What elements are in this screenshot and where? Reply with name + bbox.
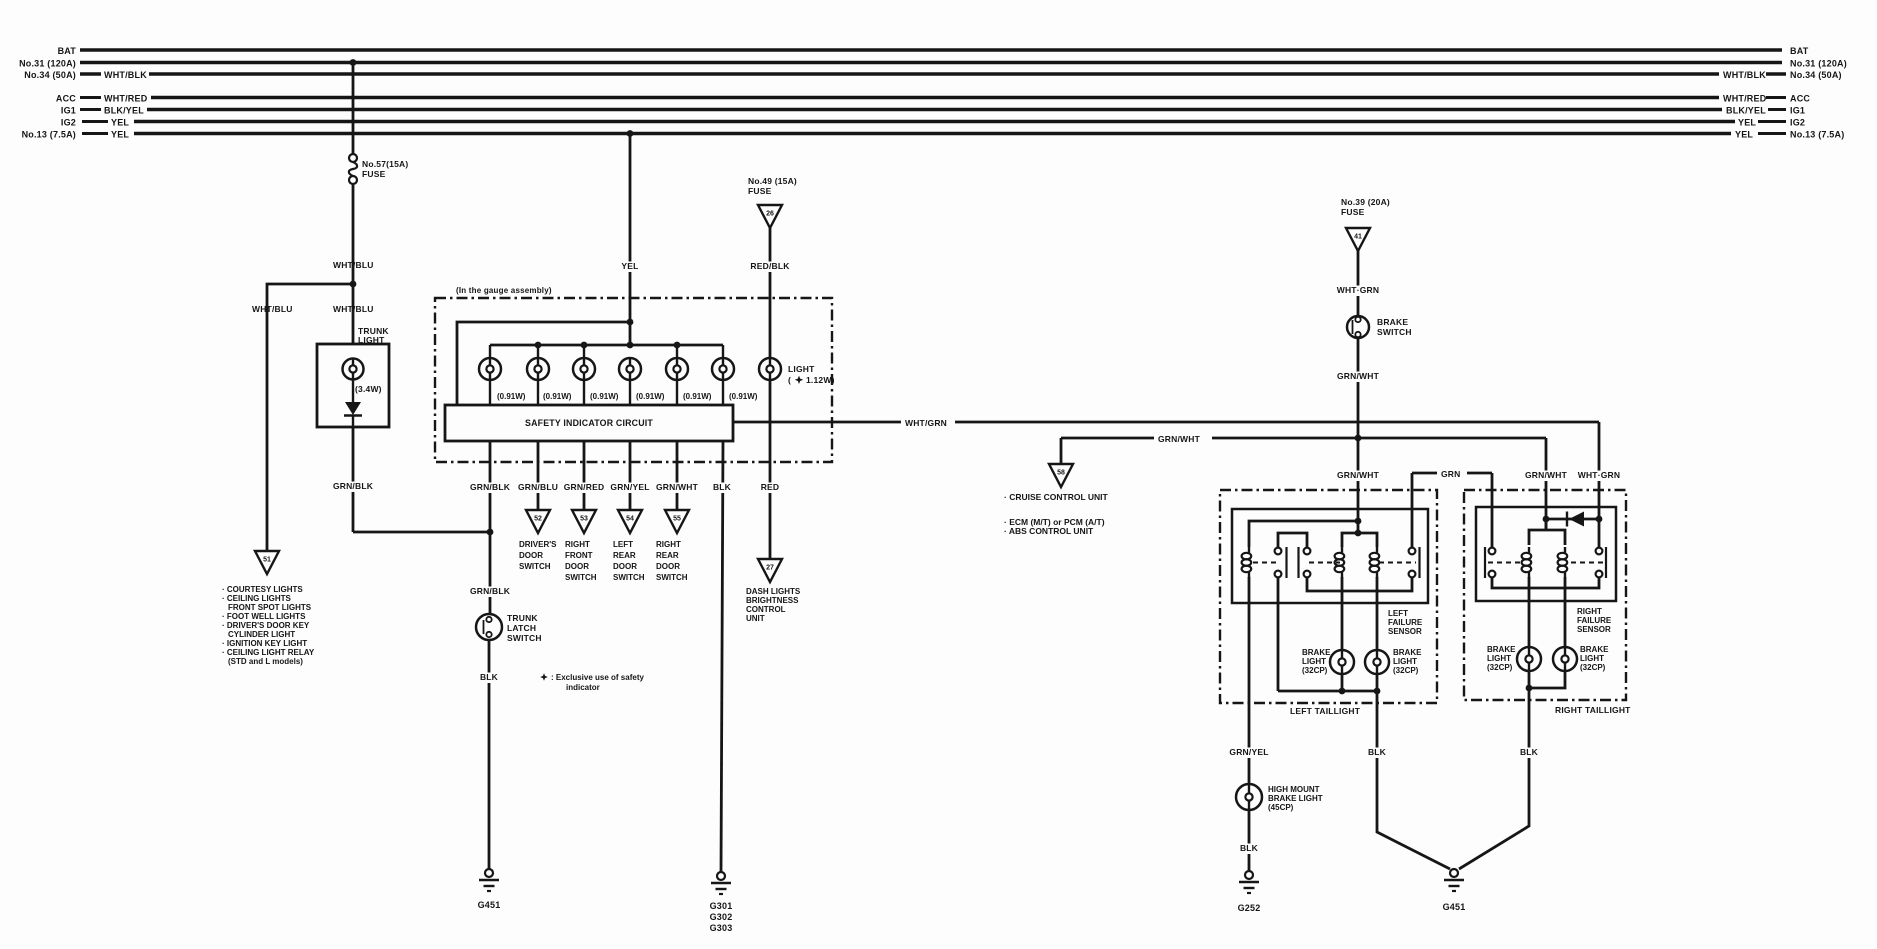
svg-text:LATCH: LATCH (507, 623, 536, 633)
contact pair A (1275, 548, 1282, 555)
svg-text:FAILURE: FAILURE (1577, 616, 1612, 625)
svg-text:BRAKE: BRAKE (1580, 645, 1609, 654)
svg-text:LIGHT: LIGHT (1580, 654, 1604, 663)
svg-text:· IGNITION KEY LIGHT: · IGNITION KEY LIGHT (222, 639, 307, 648)
contact bars (1285, 547, 1287, 578)
svg-text:ACC: ACC (56, 94, 76, 104)
connector 54 left rear door switch (618, 510, 642, 533)
wire GRN between taillights (1412, 472, 1437, 475)
wire GRN/YEL out of box (1248, 577, 1251, 784)
brake switch SW (1347, 316, 1369, 338)
svg-text:WHT/RED: WHT/RED (1723, 94, 1767, 104)
svg-text:SWITCH: SWITCH (519, 562, 551, 571)
lamp indicator 1 (0.91W) (489, 345, 491, 358)
svg-text:(0.91W): (0.91W) (543, 392, 572, 401)
lamp indicator 5 (0.91W) (676, 345, 678, 358)
svg-text:SWITCH: SWITCH (507, 633, 542, 643)
wire BLK (488, 640, 491, 869)
svg-text:FUSE: FUSE (1341, 207, 1365, 217)
contact bar right (1418, 547, 1420, 578)
svg-text:FUSE: FUSE (362, 169, 386, 179)
svg-text:GRN/BLK: GRN/BLK (333, 481, 374, 491)
lamp indicator 6 (0.91W) (722, 345, 724, 358)
svg-text:LIGHT: LIGHT (1302, 657, 1326, 666)
wire GRN/YEL to left rear door switch (629, 441, 632, 510)
svg-text:GRN/WHT: GRN/WHT (656, 482, 699, 492)
svg-text:GRN/WHT: GRN/WHT (1525, 470, 1568, 480)
svg-text:GRN: GRN (1441, 469, 1461, 479)
wires lamps to safety indicator circuit (489, 380, 491, 405)
svg-text:(3.4W): (3.4W) (355, 384, 382, 394)
svg-text:YEL: YEL (111, 130, 129, 140)
wire YEL (629, 134, 632, 346)
svg-text:: Exclusive use of safety: : Exclusive use of safety (551, 673, 644, 682)
svg-text:WHT/BLK: WHT/BLK (1723, 70, 1766, 80)
lamp indicator 3 (0.91W) (583, 345, 585, 358)
svg-text:G303: G303 (710, 923, 733, 933)
svg-text:CYLINDER LIGHT: CYLINDER LIGHT (228, 630, 295, 639)
svg-text:(45CP): (45CP) (1268, 803, 1294, 812)
svg-text:WHT/GRN: WHT/GRN (905, 418, 947, 428)
contact bar left (1484, 547, 1486, 578)
lamp indicator 2 (0.91W) (537, 345, 539, 358)
svg-text:GRN/RED: GRN/RED (564, 482, 605, 492)
node junction (1355, 518, 1362, 525)
svg-text:BLK: BLK (713, 482, 732, 492)
svg-text:FRONT: FRONT (565, 551, 593, 560)
bus No.31 (120A) (80, 61, 1782, 64)
svg-text:BLK: BLK (1520, 747, 1539, 757)
svg-text:DOOR: DOOR (656, 562, 680, 571)
wire (352, 63, 355, 155)
svg-text:WHT/BLU: WHT/BLU (333, 260, 374, 270)
wire WHT/GRN drop to right taillight (1598, 422, 1601, 519)
svg-text:GRN/YEL: GRN/YEL (1229, 747, 1268, 757)
svg-text:BLK/YEL: BLK/YEL (1726, 106, 1766, 116)
svg-text:SWITCH: SWITCH (565, 573, 597, 582)
svg-text:BLK: BLK (1240, 843, 1259, 853)
svg-text:(32CP): (32CP) (1302, 666, 1328, 675)
node junction WHT/BLU branch (350, 281, 357, 288)
svg-text:DOOR: DOOR (519, 551, 543, 560)
node junction GRN/WHT (1355, 435, 1362, 442)
svg-text:RIGHT: RIGHT (656, 540, 681, 549)
svg-text:GRN/BLU: GRN/BLU (518, 482, 558, 492)
wire contact to bottom (1277, 578, 1280, 691)
svg-text:FRONT SPOT LIGHTS: FRONT SPOT LIGHTS (228, 603, 312, 612)
svg-text:GRN/BLK: GRN/BLK (470, 482, 511, 492)
svg-text:(0.91W): (0.91W) (636, 392, 665, 401)
svg-text:· CRUISE CONTROL UNIT: · CRUISE CONTROL UNIT (1004, 492, 1109, 502)
wire WHT/GRN (1357, 251, 1360, 316)
svg-text:BAT: BAT (58, 46, 77, 56)
svg-text:REAR: REAR (613, 551, 636, 560)
svg-text:No.34 (50A): No.34 (50A) (24, 70, 76, 80)
svg-text:(0.91W): (0.91W) (590, 392, 619, 401)
ground G252 (1245, 871, 1253, 879)
contact bridge (1278, 533, 1307, 547)
svg-text:RED/BLK: RED/BLK (750, 261, 790, 271)
wire branch to courtesy lights (267, 284, 353, 551)
connector 58 cruise control unit (1049, 464, 1073, 487)
dashed actuation line (1253, 562, 1276, 564)
svg-text:BAT: BAT (1790, 46, 1809, 56)
right taillight box (1464, 490, 1626, 700)
lamp brake light left inner (32CP) (1365, 650, 1389, 674)
wire coil A to brake light (1341, 577, 1344, 650)
trunk latch switch SW (476, 614, 502, 640)
svg-text:(32CP): (32CP) (1487, 663, 1513, 672)
svg-text:LIGHT: LIGHT (788, 364, 815, 374)
svg-text:TRUNK: TRUNK (507, 613, 538, 623)
note exclusive use of safety indicator (540, 673, 548, 681)
dashed actuation line (1488, 562, 1523, 564)
left failure sensor box (1232, 509, 1428, 603)
bus ACC WHT/RED (80, 96, 101, 99)
wire BLK (1248, 810, 1251, 871)
svg-text:SENSOR: SENSOR (1577, 625, 1611, 634)
wire bottom bus (1278, 690, 1377, 693)
wire hat to sensor coils (1357, 521, 1360, 533)
svg-text:No.13 (7.5A): No.13 (7.5A) (22, 130, 76, 140)
svg-text:RIGHT: RIGHT (1577, 607, 1602, 616)
svg-text:1.12W): 1.12W) (806, 375, 835, 385)
svg-text:No.34 (50A): No.34 (50A) (1790, 70, 1842, 80)
svg-text:G451: G451 (478, 900, 501, 910)
svg-text:· FOOT WELL LIGHTS: · FOOT WELL LIGHTS (222, 612, 306, 621)
svg-text:RIGHT: RIGHT (565, 540, 590, 549)
svg-text:G301: G301 (710, 901, 733, 911)
svg-text:(0.91W): (0.91W) (729, 392, 758, 401)
svg-text:· COURTESY LIGHTS: · COURTESY LIGHTS (222, 585, 303, 594)
wire BLK left taillight to ground (1377, 703, 1450, 869)
svg-text:41: 41 (1354, 234, 1362, 241)
wire feed to safety indicator circuit (457, 322, 630, 405)
coil left (taillight) (1248, 547, 1250, 553)
svg-text:BLK: BLK (480, 672, 499, 682)
wire to cruise/ecm/abs (1060, 438, 1063, 464)
svg-text:BLK: BLK (1368, 747, 1387, 757)
connector 52 driver's door switch (526, 510, 550, 533)
svg-text:YEL: YEL (621, 261, 638, 271)
lamp brake light right (32CP) (1517, 647, 1541, 671)
svg-text:SAFETY INDICATOR CIRCUIT: SAFETY INDICATOR CIRCUIT (525, 418, 653, 428)
svg-text:YEL: YEL (111, 118, 129, 128)
contact pair right (WHT/GRN) (1596, 548, 1603, 555)
wire GRN/WHT into left taillight (1357, 438, 1360, 521)
ground G451 (1450, 869, 1458, 877)
svg-text:27: 27 (766, 565, 774, 572)
svg-text:LEFT: LEFT (613, 540, 633, 549)
left taillight box (1220, 490, 1437, 703)
svg-text:LIGHT: LIGHT (1393, 657, 1417, 666)
svg-text:LEFT TAILLIGHT: LEFT TAILLIGHT (1290, 706, 1361, 716)
svg-text:No.57(15A): No.57(15A) (362, 159, 408, 169)
wire GRN/WHT (1357, 338, 1360, 438)
svg-text:DOOR: DOOR (565, 562, 589, 571)
wire GRN/BLK to trunk latch switch (489, 441, 492, 614)
svg-text:G451: G451 (1443, 902, 1466, 912)
svg-text:WHT/BLK: WHT/BLK (104, 70, 147, 80)
connector 51 to courtesy lights (255, 551, 279, 574)
svg-text:UNIT: UNIT (746, 614, 765, 623)
svg-text:52: 52 (534, 516, 542, 523)
diode D1 (1546, 518, 1599, 521)
wire to left coil (1249, 521, 1358, 547)
svg-text:· CEILING LIGHT RELAY: · CEILING LIGHT RELAY (222, 648, 315, 657)
svg-text:(0.91W): (0.91W) (683, 392, 712, 401)
svg-text:DASH LIGHTS: DASH LIGHTS (746, 587, 801, 596)
svg-text:SWITCH: SWITCH (613, 573, 645, 582)
svg-text:BRAKE: BRAKE (1393, 648, 1422, 657)
svg-text:DOOR: DOOR (613, 562, 637, 571)
svg-text:G252: G252 (1238, 903, 1261, 913)
svg-text:53: 53 (580, 516, 588, 523)
svg-text:BLK/YEL: BLK/YEL (104, 106, 144, 116)
svg-text:58: 58 (1057, 470, 1065, 477)
svg-text:WHT·GRN: WHT·GRN (1337, 285, 1379, 295)
svg-text:BRAKE LIGHT: BRAKE LIGHT (1268, 794, 1323, 803)
svg-text:IG2: IG2 (1790, 118, 1805, 128)
node tap on No.13 bus (627, 130, 634, 137)
svg-text:RIGHT TAILLIGHT: RIGHT TAILLIGHT (1555, 705, 1631, 715)
svg-text:GRN/YEL: GRN/YEL (610, 482, 649, 492)
lamp brake light right inner (32CP) (1553, 647, 1577, 671)
wire WHT/GRN to contact (1598, 519, 1601, 547)
wire GRN/WHT horizontal (1061, 437, 1154, 440)
svg-text:BRIGHTNESS: BRIGHTNESS (746, 596, 799, 605)
diode in trunk light (345, 402, 361, 415)
wire coil C to brake light (1528, 577, 1531, 647)
lamp LIGHT (1.12W) (759, 358, 781, 380)
bus No.34 (50A) WHT/BLK (80, 72, 101, 75)
svg-text:BRAKE: BRAKE (1487, 645, 1516, 654)
svg-text:IG2: IG2 (61, 118, 76, 128)
svg-text:REAR: REAR (656, 551, 679, 560)
svg-text:RED: RED (761, 482, 780, 492)
wire GRN/BLU to driver's door switch (537, 441, 540, 510)
svg-text:· ABS CONTROL UNIT: · ABS CONTROL UNIT (1004, 526, 1094, 536)
svg-text:G302: G302 (710, 912, 733, 922)
svg-text:LIGHT: LIGHT (358, 335, 385, 345)
svg-text:CONTROL: CONTROL (746, 605, 786, 614)
wire WHT/BLU (352, 184, 355, 284)
svg-text:(STD and L models): (STD and L models) (228, 657, 303, 666)
node tap on No.31 bus (350, 59, 357, 66)
lamp trunk light (3.4W) (343, 359, 364, 380)
svg-text:No.49 (15A): No.49 (15A) (748, 176, 797, 186)
svg-text:YEL: YEL (1738, 118, 1756, 128)
node junction YEL (627, 319, 634, 326)
coil failure sensor C (1528, 547, 1530, 553)
wire GRN/RED to right front door switch (583, 441, 586, 510)
svg-text:51: 51 (263, 557, 271, 564)
svg-text:GRN/WHT: GRN/WHT (1337, 371, 1380, 381)
svg-text:No.13 (7.5A): No.13 (7.5A) (1790, 130, 1844, 140)
contact bar right (1605, 547, 1607, 578)
wire hat to sensor coils (1545, 519, 1548, 530)
wire RED/BLK (769, 228, 772, 358)
bus IG2 YEL (82, 120, 108, 123)
svg-text:· DRIVER'S DOOR KEY: · DRIVER'S DOOR KEY (222, 621, 310, 630)
fuse No.57 (15A) (349, 154, 357, 162)
svg-text:26: 26 (766, 211, 774, 218)
svg-text:55: 55 (673, 516, 681, 523)
connector 27 dash lights brightness control unit (758, 559, 782, 582)
wire GRN/BLK from trunk light (352, 427, 355, 532)
coil failure sensor D (1564, 547, 1566, 553)
wire bottom (1529, 671, 1565, 688)
svg-text:(In the gauge assembly): (In the gauge assembly) (456, 286, 552, 295)
wire GRN/WHT drop to right taillight (1545, 438, 1548, 530)
svg-text:· CEILING LIGHTS: · CEILING LIGHTS (222, 594, 292, 603)
wire GRN/WHT to right rear door switch (676, 441, 679, 510)
coil failure sensor A (1341, 547, 1343, 553)
svg-text:(32CP): (32CP) (1393, 666, 1419, 675)
svg-text:No.39 (20A): No.39 (20A) (1341, 197, 1390, 207)
svg-text:HIGH MOUNT: HIGH MOUNT (1268, 785, 1320, 794)
svg-text:WHT/RED: WHT/RED (104, 94, 148, 104)
lamp indicator 4 (0.91W) (619, 358, 641, 380)
svg-text:GRN/WHT: GRN/WHT (1337, 470, 1380, 480)
bus IG1 BLK/YEL (80, 108, 101, 111)
lamp bus wire in gauge (490, 344, 723, 347)
ground G451 (trunk latch) (485, 869, 493, 877)
wire BLK out (1376, 691, 1379, 703)
svg-text:No.31 (120A): No.31 (120A) (19, 59, 76, 69)
svg-text:(: ( (788, 375, 791, 385)
svg-text:GRN/BLK: GRN/BLK (470, 586, 511, 596)
svg-text:DRIVER'S: DRIVER'S (519, 540, 557, 549)
connector 55 right rear door switch (665, 510, 689, 533)
coil failure sensor B (1376, 547, 1378, 553)
wire BLK right taillight to ground (1459, 700, 1529, 869)
contact pair B (1304, 548, 1311, 555)
lamp high mount brake light (45CP) (1236, 784, 1262, 810)
lamp brake light left (32CP) (1330, 650, 1354, 674)
wire coil D to brake light (1564, 577, 1567, 647)
contact pair right (1409, 548, 1416, 555)
wire GRN up from contact (1411, 473, 1414, 547)
svg-text:FAILURE: FAILURE (1388, 618, 1423, 627)
svg-text:BRAKE: BRAKE (1377, 317, 1408, 327)
right failure sensor box (1476, 507, 1616, 601)
svg-text:IG1: IG1 (1790, 106, 1805, 116)
svg-text:LIGHT: LIGHT (1487, 654, 1511, 663)
svg-text:GRN/WHT: GRN/WHT (1158, 434, 1201, 444)
wire coil B to brake light (1376, 577, 1379, 650)
contact pair left (GRN) (1489, 548, 1496, 555)
svg-text:No.31 (120A): No.31 (120A) (1790, 59, 1847, 69)
svg-text:LEFT: LEFT (1388, 609, 1408, 618)
connector 53 right front door switch (572, 510, 596, 533)
ground G301 G302 G303 (717, 872, 725, 880)
svg-text:WHT/BLU: WHT/BLU (252, 304, 293, 314)
bus BAT (80, 48, 1782, 51)
wire RED to dash lights controller (769, 380, 772, 559)
bus No.13 (7.5A) YEL (82, 132, 108, 135)
svg-text:54: 54 (626, 516, 634, 523)
svg-text:IG1: IG1 (61, 106, 76, 116)
wire inner bottom bus (1307, 578, 1412, 591)
svg-text:(0.91W): (0.91W) (497, 392, 526, 401)
svg-text:(32CP): (32CP) (1580, 663, 1606, 672)
svg-text:BRAKE: BRAKE (1302, 648, 1331, 657)
wire BLK to ground G301 (721, 441, 723, 872)
svg-text:ACC: ACC (1790, 94, 1810, 104)
wire inner bottom bus (1492, 578, 1599, 588)
wire (352, 284, 355, 344)
svg-text:SWITCH: SWITCH (1377, 327, 1412, 337)
svg-text:indicator: indicator (566, 683, 600, 692)
wire WHT/GRN from safety indicator circuit (733, 421, 901, 424)
node junction GRN/BLK (487, 529, 494, 536)
svg-text:FUSE: FUSE (748, 186, 772, 196)
svg-text:SWITCH: SWITCH (656, 573, 688, 582)
trunk light box (317, 344, 389, 427)
svg-text:SENSOR: SENSOR (1388, 627, 1422, 636)
svg-text:WHT·GRN: WHT·GRN (1578, 470, 1620, 480)
svg-text:YEL: YEL (1735, 130, 1753, 140)
safety indicator circuit box U1 (445, 405, 733, 441)
